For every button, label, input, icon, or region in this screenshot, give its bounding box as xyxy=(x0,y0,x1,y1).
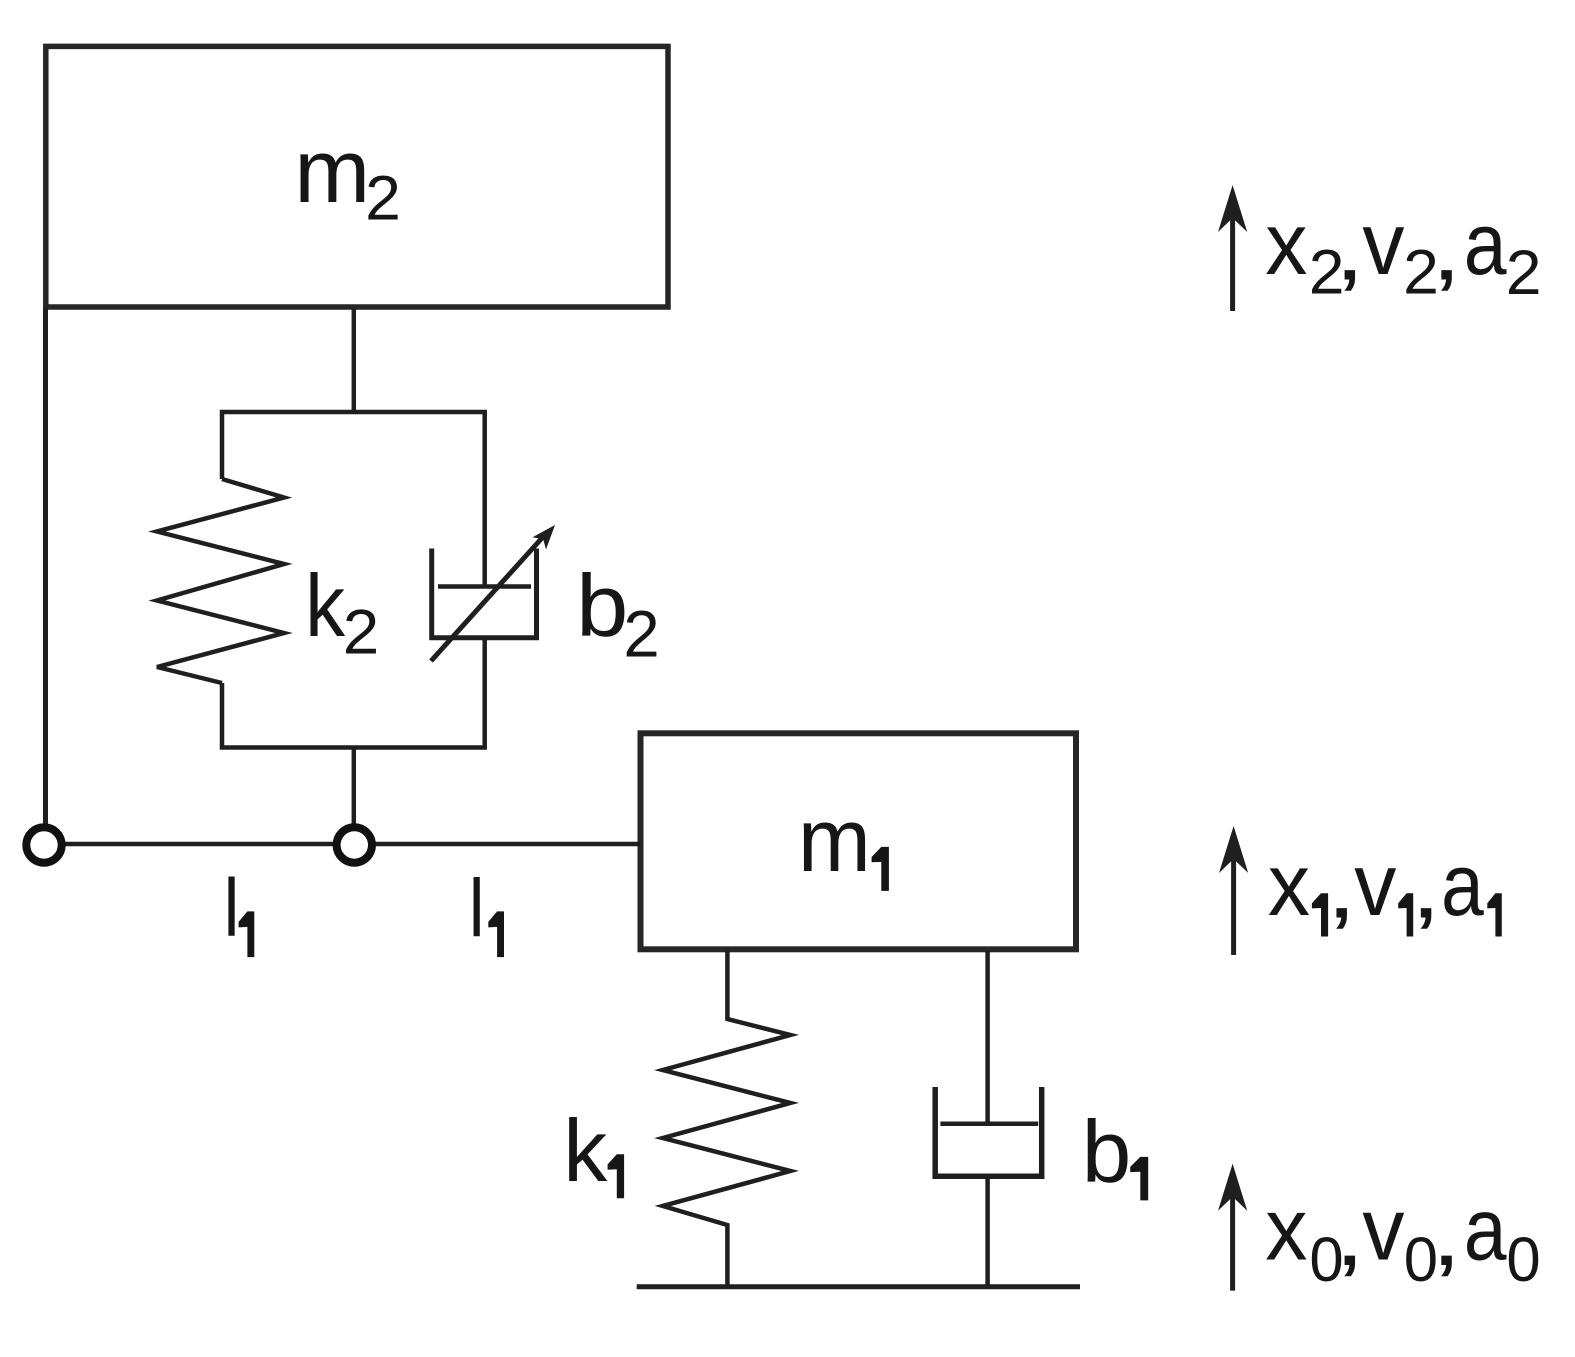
label l1 right xyxy=(469,863,504,957)
svg-text:b: b xyxy=(1082,1102,1132,1200)
lever bar xyxy=(44,842,641,847)
svg-text:2: 2 xyxy=(1506,238,1542,308)
svg-text:m: m xyxy=(294,122,370,222)
svg-text:2: 2 xyxy=(623,597,659,670)
svg-text:l: l xyxy=(224,863,240,954)
svg-text:a: a xyxy=(1464,1180,1507,1279)
svg-text:a: a xyxy=(1441,835,1484,934)
wire bracket bottom xyxy=(222,638,485,748)
label m2 xyxy=(294,122,401,234)
label b1 xyxy=(1082,1102,1149,1200)
svg-text:,: , xyxy=(1411,839,1442,937)
wire bracket top (k2/b2 parallel top bar) xyxy=(222,412,485,587)
svg-text:k: k xyxy=(563,1101,608,1200)
svg-text:a: a xyxy=(1464,194,1507,293)
direction arrow x0 xyxy=(1218,1164,1247,1291)
svg-text:x: x xyxy=(1268,836,1310,934)
svg-text:k: k xyxy=(305,557,346,655)
svg-text:0: 0 xyxy=(1506,1225,1540,1295)
svg-text:b: b xyxy=(576,558,628,656)
label x2,v2,a2 xyxy=(1265,194,1541,308)
damper b2 cup xyxy=(432,549,537,638)
svg-text:v: v xyxy=(1362,195,1404,293)
svg-text:,: , xyxy=(1431,201,1462,299)
svg-text:l: l xyxy=(469,863,485,954)
label k2 xyxy=(305,557,379,667)
svg-text:,: , xyxy=(1334,1186,1365,1284)
label x1,v1,a1 xyxy=(1268,835,1502,937)
svg-text:x: x xyxy=(1265,196,1307,294)
svg-text:m: m xyxy=(798,790,871,890)
svg-text:2: 2 xyxy=(365,163,401,233)
wire m2 bottom center to bracket xyxy=(352,308,357,414)
wire bracket bottom center to pivot B xyxy=(352,748,357,828)
spring k2 xyxy=(157,479,284,683)
damper b2 variable arrow xyxy=(431,525,555,661)
damper b1 cup xyxy=(935,1087,1041,1176)
damper b1 rod upper xyxy=(985,950,990,1124)
svg-text:,: , xyxy=(1334,201,1365,299)
damper b2 piston xyxy=(438,584,531,589)
mass m1 xyxy=(641,733,1077,949)
wire left vertical from m2 to pivot A xyxy=(43,308,48,827)
label b2 xyxy=(576,558,660,671)
direction arrow x1 xyxy=(1219,826,1248,955)
svg-text:v: v xyxy=(1362,1181,1404,1279)
spring k1 xyxy=(663,950,791,1287)
direction arrow x2 xyxy=(1218,185,1247,311)
mass m2 xyxy=(46,46,668,307)
svg-text:2: 2 xyxy=(343,597,380,668)
svg-text:,: , xyxy=(1431,1186,1462,1284)
ground line xyxy=(637,1284,1080,1289)
damper b1 piston xyxy=(940,1122,1038,1127)
label k1 xyxy=(563,1101,624,1200)
label x0,v0,a0 xyxy=(1265,1180,1541,1296)
damper b1 rod lower xyxy=(985,1176,990,1287)
svg-text:,: , xyxy=(1326,839,1357,937)
svg-text:x: x xyxy=(1265,1181,1307,1279)
pivot A (left circle) xyxy=(26,827,61,862)
pivot B (middle circle) xyxy=(337,827,372,862)
svg-text:v: v xyxy=(1354,836,1396,934)
label l1 left xyxy=(224,863,255,957)
label m1 xyxy=(798,790,889,891)
